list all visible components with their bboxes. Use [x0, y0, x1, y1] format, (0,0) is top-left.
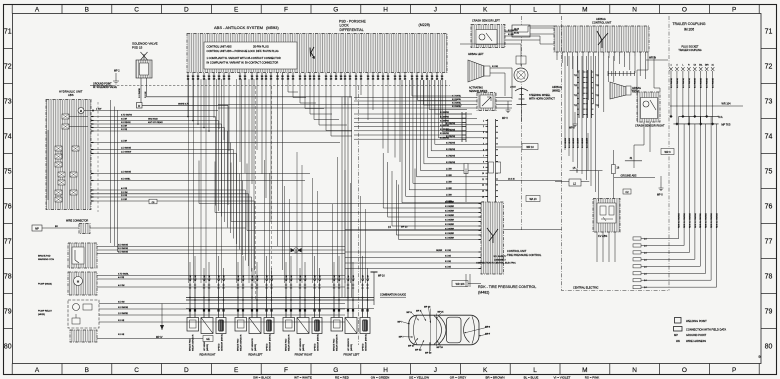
WA 13 box label: [496, 196, 526, 199]
MP 16 ground at bus end: [371, 271, 378, 273]
svg-text:CONTROL UNIT ABS + PORSCHE LOC: CONTROL UNIT ABS + PORSCHE LOCK DIFF. 50…: [207, 49, 279, 53]
svg-text:T12: T12: [574, 105, 577, 107]
svg-text:0.5 GE: 0.5 GE: [445, 267, 452, 269]
svg-text:14: 14: [482, 196, 484, 198]
svg-text:GE = YELLOW: GE = YELLOW: [409, 375, 429, 379]
svg-text:0.5 BR/RE: 0.5 BR/RE: [440, 137, 450, 139]
svg-text:3: 3: [483, 132, 484, 134]
svg-text:MP IV: MP IV: [156, 336, 163, 339]
svg-text:0.5 BR: 0.5 BR: [121, 126, 128, 128]
svg-text:SPEED: SPEED: [314, 343, 316, 351]
svg-text:(M593): (M593): [266, 25, 279, 30]
svg-text:77: 77: [4, 239, 12, 246]
svg-text:0.5 SW: 0.5 SW: [118, 302, 125, 304]
svg-text:SPEED: SPEED: [218, 343, 220, 351]
airbag right feed wires: [608, 56, 610, 82]
svg-text:(M682): (M682): [552, 89, 560, 93]
svg-text:1.5 BR: 1.5 BR: [446, 175, 452, 177]
nested stair wires into connector T26: [402, 80, 488, 203]
svg-text:71: 71: [765, 29, 773, 36]
svg-text:N: N: [632, 367, 637, 374]
svg-text:1: 1: [483, 120, 484, 122]
svg-text:0.5 GE/BR: 0.5 GE/BR: [445, 211, 455, 213]
svg-text:BL = BLUE: BL = BLUE: [524, 375, 539, 379]
airbag right fan: [610, 82, 626, 99]
long leader lines through car: [430, 309, 432, 352]
pump wires: [97, 275, 345, 277]
svg-text:77: 77: [765, 239, 773, 246]
connector box right of crash sensor left: [512, 25, 530, 37]
svg-text:MP 2: MP 2: [114, 70, 120, 73]
svg-text:WR 10: WR 10: [526, 146, 534, 149]
svg-text:KV ABS: KV ABS: [598, 234, 607, 238]
WR 103 box: [452, 281, 468, 287]
svg-text:0.5 GE/SW: 0.5 GE/SW: [577, 138, 579, 148]
REAR RIGHT HF sensor box: [201, 318, 213, 334]
svg-text:WEAR SENSOR: WEAR SENSOR: [239, 334, 242, 351]
FRONT LEFT HF sensor box: [345, 318, 357, 334]
svg-text:0.5 SW/GE: 0.5 SW/GE: [118, 245, 129, 247]
svg-text:7: 7: [483, 155, 484, 157]
hydraulic unit pump motor M: [78, 108, 84, 114]
svg-text:WIRE CONNECTOR: WIRE CONNECTOR: [66, 220, 89, 223]
svg-text:CONTROL UNIT: CONTROL UNIT: [592, 21, 612, 25]
svg-text:0.5 GE/SW: 0.5 GE/SW: [565, 138, 567, 148]
hydraulic unit internal valves: [62, 114, 69, 119]
left lower horizontals airbag section: [354, 113, 462, 115]
svg-text:1.0: 1.0: [644, 266, 647, 268]
svg-text:WA 13: WA 13: [530, 198, 538, 201]
row number bands: [4, 48, 13, 50]
svg-text:L: L: [533, 367, 537, 374]
svg-text:ASSEMBLY: ASSEMBLY: [494, 258, 506, 261]
svg-text:RDK 0.5 SW/GE: RDK 0.5 SW/GE: [711, 213, 713, 228]
section divider chain line K/L: [521, 16, 523, 230]
svg-text:MP I: MP I: [399, 337, 404, 339]
svg-text:1.0: 1.0: [644, 239, 647, 241]
svg-text:0.5 SW/GE: 0.5 SW/GE: [118, 248, 129, 250]
airbag CU pins: [556, 52, 558, 56]
svg-text:11: 11: [482, 179, 484, 181]
C2 box: [623, 189, 631, 194]
svg-text:SPEED: SPEED: [362, 343, 364, 351]
MP TKS bus: [673, 123, 718, 125]
pump relay dashed box: [68, 300, 99, 328]
control unit ABS (hatched block): [187, 34, 447, 73]
CU left pins stair down to hydraulic rows: [187, 79, 189, 117]
svg-text:0.5 GE: 0.5 GE: [118, 334, 125, 336]
svg-text:9: 9: [483, 167, 484, 169]
central vertical bundle H column: [341, 97, 343, 298]
svg-text:1.5 SW/RE: 1.5 SW/RE: [118, 313, 129, 315]
svg-text:E: E: [234, 367, 239, 374]
svg-text:RDK 0.5 SW/GE: RDK 0.5 SW/GE: [689, 213, 691, 228]
FRONT LEFT speed sensor box: [360, 318, 370, 334]
svg-text:J: J: [434, 6, 437, 13]
airbag control unit (hatched): [554, 26, 649, 52]
svg-text:4.0 SW: 4.0 SW: [118, 285, 125, 287]
connector column T26: [487, 119, 489, 204]
svg-text:12: 12: [482, 185, 484, 187]
wire connector (hatched): [79, 224, 90, 234]
car roof: [447, 317, 462, 343]
svg-text:40.42: 40.42: [514, 33, 520, 35]
svg-text:0.5 RE/GE: 0.5 RE/GE: [446, 142, 456, 144]
svg-text:0.5 RE/GE: 0.5 RE/GE: [446, 155, 456, 157]
svg-text:CONTROL UNIT ABS: CONTROL UNIT ABS: [207, 45, 232, 49]
svg-text:SO. SAFETY: SO. SAFETY: [494, 255, 507, 258]
svg-text:C: C: [134, 6, 139, 13]
control unit ABS label box: [204, 42, 297, 69]
svg-text:MP 20: MP 20: [401, 227, 408, 229]
svg-text:SPEED: SPEED: [266, 343, 268, 351]
car windshield: [434, 316, 442, 345]
svg-text:0.5 GE/SW: 0.5 GE/SW: [573, 138, 575, 148]
long verticals to lower-left components: [114, 107, 116, 247]
svg-text:T12: T12: [574, 95, 577, 97]
svg-text:BRAKE PAD: BRAKE PAD: [284, 338, 287, 351]
R relay box: [137, 103, 143, 109]
section divider chain line H/J: [358, 86, 360, 345]
svg-text:WR 3: WR 3: [665, 151, 672, 154]
svg-text:CONNECTION WITH FIELD DATA: CONNECTION WITH FIELD DATA: [686, 328, 726, 332]
svg-text:B: B: [85, 6, 89, 13]
wire from R box: [142, 104, 228, 106]
svg-text:RS = PINK: RS = PINK: [585, 375, 600, 379]
svg-text:58R: 58R: [705, 65, 709, 67]
svg-text:1.5 SW/GE: 1.5 SW/GE: [121, 172, 132, 174]
ignition feed wire: [460, 44, 521, 66]
svg-text:VI = VIOLET: VI = VIOLET: [554, 375, 571, 379]
svg-text:76: 76: [765, 204, 773, 211]
svg-text:CONTROL UNIT: CONTROL UNIT: [507, 249, 527, 253]
svg-text:0.5 GE/BR: 0.5 GE/BR: [445, 224, 455, 226]
svg-text:MP 8: MP 8: [569, 127, 575, 130]
svg-text:(M003): (M003): [207, 344, 209, 351]
svg-text:BRAKE PAD: BRAKE PAD: [188, 338, 191, 351]
KV ABS pin drops: [596, 232, 598, 262]
svg-text:CONNECTION IN CENTRAL ELECTRIC: CONNECTION IN CENTRAL ELECTRIC: [476, 262, 516, 265]
long horizontals to steering column: [354, 97, 512, 99]
svg-text:FRONT RIGHT: FRONT RIGHT: [295, 353, 313, 357]
wire solenoid to right: [147, 96, 353, 98]
svg-text:A: A: [35, 367, 40, 374]
control unit middle pin drops: [287, 80, 289, 92]
svg-text:(M003): (M003): [255, 344, 257, 351]
lower RDK feed wires: [345, 251, 481, 253]
svg-text:WA: WA: [676, 339, 680, 343]
svg-text:0.5 SW/GE: 0.5 SW/GE: [701, 77, 703, 88]
svg-text:N: N: [632, 6, 637, 13]
trailer coupling wires: [669, 67, 672, 73]
svg-text:1.5 BR: 1.5 BR: [121, 141, 128, 143]
svg-text:RDK 0.5 SW/GE: RDK 0.5 SW/GE: [695, 213, 697, 228]
connector strip ticks: [461, 112, 463, 142]
brake-pad wires: [97, 246, 345, 248]
svg-text:O: O: [682, 367, 687, 374]
svg-text:0.75 SW/BL: 0.75 SW/BL: [118, 274, 130, 276]
bottom nested wires into RDK control unit: [199, 161, 481, 204]
svg-text:WR 104: WR 104: [722, 102, 732, 105]
svg-text:WARNING CON: WARNING CON: [38, 258, 54, 261]
central electric dashed box: [562, 16, 670, 291]
svg-text:0.5 GE: 0.5 GE: [445, 261, 452, 263]
car rear window: [464, 318, 470, 343]
vertical bundle below airbag CU: [564, 56, 566, 150]
T12 connector strips: [578, 70, 580, 118]
svg-text:ANT SYS REAR: ANT SYS REAR: [148, 121, 163, 124]
svg-text:COMBINATION GAUGE: COMBINATION GAUGE: [380, 293, 406, 296]
svg-text:0.5 SW/BL: 0.5 SW/BL: [452, 103, 461, 105]
svg-text:WT = WHITE: WT = WHITE: [294, 375, 312, 379]
RDK pins: [479, 203, 482, 205]
svg-text:0.5 SW/GE: 0.5 SW/GE: [689, 77, 691, 88]
middle verticals feeding wheel sensors: [188, 79, 190, 283]
svg-text:TRAILER COUPLING: TRAILER COUPLING: [678, 49, 701, 52]
svg-text:0.5 SW/GN: 0.5 SW/GN: [508, 30, 518, 32]
svg-text:10 A 16: 10 A 16: [508, 178, 516, 181]
svg-text:REAR RIGHT: REAR RIGHT: [200, 353, 216, 357]
svg-text:G: G: [333, 367, 338, 374]
svg-text:W. SOLENOID VALVE: W. SOLENOID VALVE: [93, 86, 117, 89]
svg-text:G: G: [333, 6, 338, 13]
REAR LEFT brake pad wear sensor box: [235, 318, 247, 332]
svg-text:PUMP RELAY: PUMP RELAY: [38, 310, 52, 313]
svg-text:MP II: MP II: [657, 194, 663, 197]
upper stair wires from right CU pins: [412, 80, 452, 96]
dashed bus line under control unit: [93, 85, 450, 87]
svg-text:SENSOR (M003): SENSOR (M003): [269, 334, 271, 351]
svg-text:78: 78: [4, 274, 12, 281]
svg-text:T12: T12: [596, 85, 599, 87]
crash sensor right lower wires: [643, 122, 645, 145]
svg-text:HF SENSOR: HF SENSOR: [300, 338, 302, 351]
svg-text:0.5 GE/BR: 0.5 GE/BR: [445, 206, 455, 208]
car nose line: [414, 315, 418, 344]
crash sensor left wires: [505, 31, 528, 33]
svg-text:4.0 RE: 4.0 RE: [121, 188, 128, 190]
svg-text:F: F: [284, 6, 288, 13]
svg-text:RDK 0.5 SW/GE: RDK 0.5 SW/GE: [679, 213, 681, 228]
svg-text:1.0: 1.0: [644, 280, 647, 282]
svg-text:0.5 SW/GE: 0.5 SW/GE: [683, 77, 685, 88]
svg-text:TCA: TCA: [718, 116, 723, 119]
svg-text:0.5 GE: 0.5 GE: [118, 320, 125, 322]
svg-text:0.5 GE: 0.5 GE: [445, 250, 452, 252]
svg-text:AIRBAG LEFT: AIRBAG LEFT: [468, 53, 484, 56]
svg-text:0.5 GE/BR: 0.5 GE/BR: [445, 202, 455, 204]
KV ABS relay (hatched): [593, 199, 620, 233]
svg-text:FRONT LEFT: FRONT LEFT: [344, 353, 360, 357]
svg-text:RDK - TIRE PRESSURE CONTROL: RDK - TIRE PRESSURE CONTROL: [478, 285, 536, 289]
svg-text:0.5 RE/GE: 0.5 RE/GE: [446, 149, 456, 151]
svg-text:0.5 GE/SW: 0.5 GE/SW: [569, 138, 571, 148]
svg-text:T12: T12: [574, 75, 577, 77]
activating sensor (hatched): [477, 93, 496, 111]
crash sensor right wires: [637, 52, 648, 92]
svg-text:MP 10: MP 10: [437, 347, 444, 349]
svg-text:BR = BROWN: BR = BROWN: [485, 375, 504, 379]
svg-text:0.5 BR/RE: 0.5 BR/RE: [440, 116, 450, 118]
trailer bus connector marks: [669, 115, 672, 118]
svg-text:2.5 SW: 2.5 SW: [121, 192, 128, 194]
dashed section line D: [271, 86, 273, 300]
svg-text:HF SENSOR: HF SENSOR: [252, 338, 254, 351]
svg-text:72: 72: [4, 64, 12, 71]
svg-text:1.0: 1.0: [644, 259, 647, 261]
svg-text:GN2 M023: GN2 M023: [148, 119, 159, 121]
svg-text:WIRE HARNESS: WIRE HARNESS: [686, 339, 706, 343]
pump relay wires: [99, 303, 345, 305]
svg-text:0.5 SW/BL: 0.5 SW/BL: [452, 99, 461, 101]
svg-text:80: 80: [4, 344, 12, 351]
svg-text:2: 2: [483, 126, 484, 128]
FRONT RIGHT brake pad wear sensor box: [283, 318, 295, 332]
svg-text:1 SW: 1 SW: [96, 109, 102, 111]
svg-text:0.5 SW/GE: 0.5 SW/GE: [118, 307, 129, 309]
solenoid valve wires down: [140, 78, 142, 103]
svg-text:0.5 GE: 0.5 GE: [492, 66, 499, 68]
FRONT LEFT brake pad wear sensor box: [331, 318, 343, 332]
fuse boxes on connector column: [489, 162, 494, 173]
svg-text:AIRBAG: AIRBAG: [596, 17, 606, 21]
svg-text:F: F: [284, 367, 288, 374]
solenoid valve symbol: [141, 52, 148, 60]
svg-text:0.5 SW/BL: 0.5 SW/BL: [452, 106, 461, 108]
svg-text:0.5 SW/GE: 0.5 SW/GE: [118, 252, 129, 254]
svg-text:T12: T12: [596, 95, 599, 97]
pump M023 (hatched): [68, 272, 97, 295]
section divider chain line N/O: [668, 16, 670, 291]
svg-text:0.5 BR/RE: 0.5 BR/RE: [440, 112, 450, 114]
RDK control unit (hatched): [481, 202, 504, 274]
legend connection with field data: [674, 327, 683, 332]
REAR RIGHT speed sensor box: [216, 318, 226, 334]
svg-text:SENSOR (M003): SENSOR (M003): [365, 334, 367, 351]
svg-text:79: 79: [4, 309, 12, 316]
svg-text:PUMP (M023): PUMP (M023): [38, 284, 52, 286]
svg-text:0.5 SW/GE: 0.5 SW/GE: [713, 77, 715, 88]
car trunk: [472, 316, 475, 343]
svg-text:M: M: [582, 6, 587, 13]
svg-text:0.5 BR/RE: 0.5 BR/RE: [440, 133, 450, 135]
svg-text:(M482): (M482): [478, 291, 489, 295]
svg-text:WR 103: WR 103: [456, 283, 465, 286]
svg-text:REAR LEFT: REAR LEFT: [248, 353, 263, 357]
G column pin drops: [344, 80, 346, 105]
svg-text:GN = GREEN: GN = GREEN: [371, 375, 390, 379]
FRONT RIGHT speed sensor box: [312, 318, 322, 334]
svg-text:M: M: [80, 109, 82, 113]
GE end box: [203, 336, 213, 342]
svg-text:ABS: ABS: [68, 93, 74, 97]
svg-text:WELDING POINT: WELDING POINT: [686, 319, 707, 323]
svg-text:79: 79: [765, 309, 773, 316]
REAR LEFT HF sensor box: [249, 318, 261, 334]
L2 coil: [569, 179, 581, 186]
airbag CU K arrow: [597, 31, 608, 48]
svg-text:0.5 BR/RE: 0.5 BR/RE: [440, 129, 450, 131]
svg-text:0.5 SW/GE: 0.5 SW/GE: [671, 77, 673, 88]
svg-text:O: O: [682, 6, 687, 13]
svg-text:0.5 SW/GE: 0.5 SW/GE: [695, 77, 697, 88]
svg-text:GR = GREY: GR = GREY: [450, 375, 466, 379]
svg-text:13: 13: [482, 191, 484, 193]
bottom connector (hatched): [70, 330, 97, 342]
svg-text:(M003): (M003): [351, 344, 353, 351]
svg-text:GE/BR: GE/BR: [436, 250, 443, 252]
svg-text:J: J: [434, 367, 437, 374]
svg-text:SENSOR (M003): SENSOR (M003): [221, 334, 223, 351]
svg-text:0.5 BR: 0.5 BR: [121, 119, 128, 121]
WR 104 wire: [670, 105, 743, 107]
svg-text:0.5 GE/SW: 0.5 GE/SW: [582, 138, 584, 148]
crash sensor left (hatched): [471, 25, 505, 48]
fuse 16: [612, 165, 616, 174]
svg-text:D: D: [184, 6, 189, 13]
svg-text:WR IN: WR IN: [649, 57, 656, 60]
svg-text:75: 75: [4, 169, 12, 176]
svg-text:74: 74: [4, 134, 12, 141]
svg-text:(M023): (M023): [38, 314, 45, 316]
svg-text:MP: MP: [35, 228, 39, 231]
svg-text:RDK 0.5 SW/GE: RDK 0.5 SW/GE: [716, 213, 718, 228]
svg-text:1.5 GN/SW: 1.5 GN/SW: [121, 152, 131, 154]
legend welding point: [675, 318, 682, 324]
svg-text:GROUND POINT: GROUND POINT: [686, 333, 707, 337]
svg-text:E: E: [234, 6, 239, 13]
svg-text:0.5 GE/BR: 0.5 GE/BR: [445, 238, 455, 240]
svg-text:RE = RED: RE = RED: [335, 375, 350, 379]
svg-text:K: K: [483, 6, 488, 13]
svg-text:73: 73: [4, 99, 12, 106]
svg-text:1.5 BR: 1.5 BR: [121, 199, 128, 201]
svg-text:C: C: [134, 367, 139, 374]
svg-text:1.5 BR: 1.5 BR: [446, 188, 452, 190]
svg-text:WITH HORN CONTACT: WITH HORN CONTACT: [529, 98, 555, 101]
svg-text:IN COMPLIANT W. VARIANT W. 50-: IN COMPLIANT W. VARIANT W. 50-CONTACT CO…: [207, 61, 279, 65]
left wire bundle verticals: [215, 117, 217, 206]
svg-text:0.5 GE/BR: 0.5 GE/BR: [445, 215, 455, 217]
svg-text:(M003): (M003): [303, 344, 305, 351]
svg-text:0.5 GN/BL: 0.5 GN/BL: [121, 179, 131, 181]
svg-text:71: 71: [4, 29, 12, 36]
svg-text:SW = BLACK: SW = BLACK: [253, 375, 271, 379]
svg-text:IM 206: IM 206: [684, 28, 694, 32]
svg-text:BRAKE-PAD: BRAKE-PAD: [38, 255, 51, 258]
svg-text:TIRE PRESSURE CONTROL: TIRE PRESSURE CONTROL: [507, 253, 542, 257]
REAR LEFT speed sensor box: [264, 318, 274, 334]
svg-text:0.5 GE: 0.5 GE: [445, 256, 452, 258]
svg-text:73: 73: [765, 99, 773, 106]
svg-text:HF SENSOR: HF SENSOR: [348, 338, 350, 351]
wires below RDK: [465, 274, 467, 287]
svg-text:78: 78: [765, 274, 773, 281]
svg-text:1.5 BR: 1.5 BR: [446, 181, 452, 183]
svg-text:T12: T12: [574, 85, 577, 87]
svg-text:L: L: [533, 6, 537, 13]
svg-text:D: D: [184, 367, 189, 374]
svg-text:80: 80: [765, 344, 773, 351]
wheel sensor bus lines: [186, 297, 374, 299]
control unit ABS K arrow symbol: [310, 47, 315, 59]
svg-text:0.75 SW/RS: 0.75 SW/RS: [121, 115, 133, 117]
svg-text:MP 12: MP 12: [415, 350, 422, 352]
airbag CU pin drops: [556, 56, 558, 60]
svg-text:0.5 BR/RE: 0.5 BR/RE: [440, 121, 450, 123]
svg-text:1.5 BR: 1.5 BR: [446, 194, 452, 196]
steering wheel with horn contact: [515, 88, 528, 105]
